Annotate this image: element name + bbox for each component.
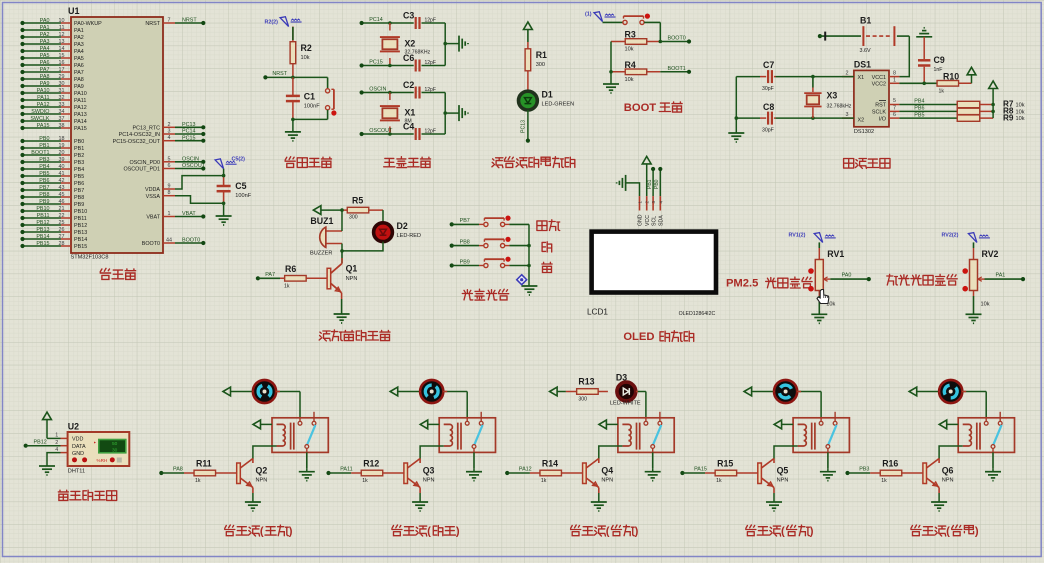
svg-text:30: 30	[112, 448, 118, 454]
wire VDDA loop	[175, 176, 224, 189]
svg-text:D1: D1	[542, 90, 553, 100]
svg-text:6: 6	[893, 112, 896, 118]
U1 pin 17 net PA7	[20, 67, 83, 76]
svg-text:40: 40	[59, 164, 65, 170]
U1 pin 2 PC13_RTC	[133, 122, 206, 132]
R7-R9 right rail + power	[992, 89, 994, 119]
svg-text:BOOT1: BOOT1	[31, 150, 49, 156]
motor/fan	[223, 387, 231, 396]
svg-text:13: 13	[59, 39, 65, 45]
svg-text:PB0: PB0	[39, 136, 49, 142]
coil power terminal	[599, 420, 607, 429]
svg-text:7: 7	[893, 105, 896, 111]
resistor R6 1k / net PA7	[256, 264, 327, 290]
coil power terminal	[253, 420, 261, 429]
svg-text:(: (	[946, 526, 950, 538]
svg-text:11: 11	[59, 25, 65, 31]
svg-text:PB5: PB5	[39, 171, 49, 177]
svg-text:DS1302: DS1302	[854, 129, 874, 135]
svg-text:SWCLK: SWCLK	[30, 116, 50, 122]
U1 pin 1 VBAT	[146, 211, 205, 221]
U1 pin 42 net PB6	[20, 178, 84, 187]
svg-text:PA5: PA5	[74, 56, 84, 62]
power terminal left	[313, 206, 321, 215]
wire to relay	[820, 392, 822, 418]
svg-text:17: 17	[59, 67, 65, 73]
motor/fan	[744, 387, 752, 396]
svg-text:): )	[456, 526, 460, 538]
svg-text:300: 300	[536, 62, 545, 68]
svg-text:PB7: PB7	[74, 188, 84, 194]
svg-text:PB14: PB14	[74, 237, 87, 243]
LCD1 pin 3 SCL	[652, 196, 654, 210]
coil to collector	[618, 445, 623, 447]
svg-text:32.768kHz: 32.768kHz	[827, 104, 852, 110]
svg-text:2: 2	[168, 122, 171, 128]
label 程序运行指示灯	[492, 158, 503, 168]
svg-text:12pF: 12pF	[425, 87, 436, 93]
svg-text:1k: 1k	[881, 478, 887, 484]
svg-text:5: 5	[168, 156, 171, 162]
net PB1 (SCL)	[652, 169, 654, 196]
label 复位电路	[285, 157, 295, 168]
svg-text:Q4: Q4	[601, 466, 613, 476]
transistor Q2 NPN	[252, 459, 254, 464]
svg-text:29: 29	[59, 74, 65, 80]
svg-text:Q1: Q1	[346, 264, 358, 274]
svg-text:300: 300	[349, 215, 358, 221]
svg-text:NPN: NPN	[423, 477, 435, 483]
resistor R14 1k / net PA12	[505, 471, 509, 475]
svg-text:PB1: PB1	[74, 146, 84, 152]
chip DS1 DS1302	[842, 60, 899, 136]
svg-text:OSCOUT_PD1: OSCOUT_PD1	[123, 167, 160, 173]
U1 pin 33 net PA12	[20, 102, 86, 111]
svg-text:7: 7	[168, 18, 171, 24]
svg-text:%RH: %RH	[97, 458, 108, 463]
resistor R10 1k	[899, 71, 971, 94]
svg-text:PB10: PB10	[74, 209, 87, 215]
svg-text:SCL: SCL	[651, 216, 657, 226]
LED D1 LED-GREEN	[519, 91, 538, 110]
potentiometer RV2 10k	[973, 242, 975, 248]
svg-text:PM2.5: PM2.5	[726, 278, 758, 290]
svg-text:R15: R15	[717, 459, 733, 469]
transistor Q4 NPN	[598, 459, 600, 464]
label 晶振电路	[384, 158, 395, 166]
svg-text:U2: U2	[68, 422, 79, 432]
svg-text:(1): (1)	[585, 12, 592, 18]
resistor R5 300	[340, 196, 383, 221]
LCD1 pin 2 VCC	[646, 196, 648, 210]
U1 pin 9 VDDA	[145, 184, 175, 194]
resistor R3 10k	[611, 30, 660, 53]
wiper net PA1	[985, 278, 1024, 280]
svg-text:PA6: PA6	[74, 63, 84, 69]
svg-text:30pF: 30pF	[762, 86, 774, 92]
U1 pin 29 net PA8	[20, 74, 83, 83]
svg-text:): )	[289, 526, 293, 538]
svg-text:PA0: PA0	[842, 273, 852, 279]
svg-text:27: 27	[59, 234, 65, 240]
svg-text:PB12: PB12	[74, 223, 87, 229]
svg-text:PA12: PA12	[519, 467, 532, 473]
svg-text:BOOT0: BOOT0	[668, 36, 686, 42]
label 温湿度模块	[58, 490, 68, 500]
svg-text:15: 15	[59, 53, 65, 59]
key PB7	[450, 216, 529, 227]
U1 pin 44 BOOT0	[142, 238, 206, 248]
label 光照数据调节	[887, 274, 898, 285]
coil power terminal	[420, 420, 428, 429]
svg-text:DS1: DS1	[854, 60, 871, 70]
wire C5 top	[223, 169, 225, 176]
U1 pin 40 net PB4	[20, 164, 84, 173]
svg-text:BOOT: BOOT	[624, 102, 657, 114]
blue marker RV1(2)	[814, 233, 823, 243]
svg-text:(: (	[260, 526, 264, 538]
svg-text:R10: R10	[943, 71, 959, 81]
svg-text:VDD: VDD	[72, 437, 83, 443]
svg-text:10k: 10k	[1016, 103, 1025, 109]
ground keys	[521, 285, 537, 287]
boot button	[603, 14, 661, 25]
svg-text:R13: R13	[578, 377, 594, 387]
svg-text:28: 28	[59, 241, 65, 247]
power terminal DHT11	[43, 412, 52, 420]
U1 pin 32 net PA11	[20, 95, 86, 104]
wire to BOOT0	[659, 22, 661, 41]
label 独立按键	[462, 290, 473, 300]
svg-text:12pF: 12pF	[425, 18, 436, 24]
crystal X3 32.768kHz	[804, 77, 852, 119]
svg-text:R11: R11	[196, 459, 212, 469]
svg-text:C3: C3	[403, 11, 414, 21]
svg-text:NPN: NPN	[942, 477, 954, 483]
svg-text:PB4: PB4	[74, 167, 84, 173]
net OSCOUT wire	[362, 133, 414, 135]
coil power terminal	[939, 420, 947, 429]
LED D2 LED-RED	[382, 210, 384, 223]
svg-text:Q6: Q6	[942, 466, 954, 476]
emitter ground	[598, 488, 600, 494]
svg-text:D2: D2	[397, 221, 408, 231]
svg-text:NPN: NPN	[777, 477, 789, 483]
svg-text:PB4: PB4	[914, 99, 924, 105]
U1 pin 43 net PB7	[20, 185, 84, 194]
svg-text:PA9: PA9	[74, 84, 84, 90]
svg-text:LED-WHITE: LED-WHITE	[610, 401, 641, 407]
label 继电器(补光)	[571, 525, 581, 536]
node NRST + wire	[265, 76, 327, 78]
svg-text:30: 30	[59, 81, 65, 87]
resistor R13 300	[550, 387, 558, 396]
capacitor C5	[217, 174, 252, 205]
svg-text:PA11: PA11	[340, 467, 352, 473]
svg-text:PA13: PA13	[74, 112, 87, 118]
pot ground	[973, 291, 975, 297]
svg-text:OSCIN: OSCIN	[369, 87, 386, 93]
net BOOT1	[660, 71, 689, 73]
transistor Q6 NPN	[938, 459, 940, 464]
capacitor C9 1nF	[918, 37, 945, 84]
power terminal	[524, 22, 533, 30]
svg-text:PA12: PA12	[74, 105, 87, 111]
svg-text:SDA: SDA	[659, 215, 665, 226]
svg-text:X1: X1	[405, 107, 416, 117]
label 声光报警电路	[319, 331, 330, 341]
net PC15 wire	[362, 65, 414, 67]
wire VDD	[47, 437, 61, 439]
U1 pin 26 net PB13	[20, 227, 87, 236]
svg-text:R4: R4	[625, 60, 636, 70]
U1 pin 13 net PA3	[20, 39, 83, 48]
svg-text:44: 44	[166, 238, 172, 244]
svg-text:PB11: PB11	[37, 213, 50, 219]
svg-text:3: 3	[846, 112, 849, 118]
svg-text:3: 3	[651, 201, 656, 204]
wiper net PA0	[830, 278, 869, 280]
wires X1/X2 to caps	[776, 76, 854, 78]
svg-text:PB6: PB6	[914, 106, 924, 112]
keys right rail	[528, 224, 530, 286]
svg-text:U1: U1	[68, 6, 80, 16]
svg-text:2: 2	[645, 201, 650, 204]
svg-text:5: 5	[893, 98, 896, 104]
svg-text:R2: R2	[301, 43, 312, 53]
svg-text:PA4: PA4	[74, 49, 84, 55]
svg-text:3.6V: 3.6V	[860, 48, 871, 54]
svg-text:34: 34	[59, 109, 65, 115]
svg-text:41: 41	[59, 171, 65, 177]
U1 pin 3 PC14-OSC32_IN	[119, 129, 206, 139]
U1 pin 11 net PA1	[20, 25, 83, 34]
transistor Q1 NPN	[341, 251, 343, 263]
net BOOT0	[660, 41, 689, 43]
svg-text:PB3: PB3	[39, 157, 49, 163]
svg-text:10k: 10k	[625, 47, 634, 53]
net PB6 / resistor R8	[899, 110, 956, 112]
svg-text:14: 14	[59, 46, 65, 52]
svg-text:PA2: PA2	[40, 32, 50, 38]
C7/C8 left rail + ground	[736, 76, 760, 78]
svg-text:(: (	[606, 526, 610, 538]
capacitor C8 30pF	[760, 102, 776, 134]
svg-text:PC14: PC14	[369, 17, 383, 23]
net PB5 / resistor R9	[899, 117, 956, 119]
svg-text:12: 12	[59, 32, 65, 38]
OLED power arrow	[642, 156, 651, 164]
LCD1 pin 4 SDA	[659, 196, 661, 210]
coil to collector	[793, 445, 798, 447]
svg-text:1: 1	[893, 77, 896, 83]
svg-text:18: 18	[59, 136, 65, 142]
svg-text:PB3: PB3	[74, 160, 84, 166]
svg-text:PA15: PA15	[37, 123, 50, 129]
labels 设置/加/减	[537, 221, 547, 231]
svg-text:BUZZER: BUZZER	[310, 251, 332, 257]
svg-text:PA4: PA4	[40, 46, 50, 52]
U1 pin 19 net PB1	[20, 143, 84, 152]
svg-text:RV2(2): RV2(2)	[942, 233, 959, 239]
svg-text:PC14: PC14	[182, 129, 196, 135]
svg-text:C9: C9	[934, 55, 945, 65]
svg-text:PB9: PB9	[460, 259, 470, 265]
U1 pin 30 net PA9	[20, 81, 83, 90]
svg-text:VSSA: VSSA	[146, 194, 161, 200]
blue marker C5(2)	[215, 159, 224, 169]
transistor Q5 NPN	[773, 459, 775, 464]
svg-text:SWDIO: SWDIO	[31, 109, 49, 115]
buzzer BUZ1	[310, 216, 342, 257]
svg-text:PB15: PB15	[74, 244, 87, 250]
svg-text:PA7: PA7	[74, 70, 84, 76]
relay	[439, 418, 495, 453]
svg-text:PA1: PA1	[74, 28, 84, 34]
svg-text:20: 20	[59, 150, 65, 156]
svg-text:46: 46	[59, 199, 65, 205]
coil to collector	[272, 445, 277, 447]
relay contact ground	[827, 468, 829, 472]
OLED ground sideways	[617, 175, 626, 191]
svg-text:PA8: PA8	[40, 74, 50, 80]
svg-text:PB13: PB13	[36, 227, 49, 233]
svg-text:Q3: Q3	[423, 466, 435, 476]
svg-text:PC13: PC13	[521, 120, 527, 133]
motor/fan	[390, 387, 398, 396]
svg-text:PC15: PC15	[182, 135, 196, 141]
svg-text:PA14: PA14	[74, 119, 87, 125]
relay contact ground	[992, 468, 994, 472]
svg-text:VCC2: VCC2	[872, 82, 886, 88]
wire to relay	[985, 392, 987, 418]
potentiometer RV1 10k	[818, 242, 820, 248]
U1 pin 8 VSSA	[146, 190, 175, 200]
svg-text:PA7: PA7	[265, 272, 275, 278]
U1 pin 16 net PA6	[20, 60, 83, 69]
svg-text:37: 37	[59, 116, 65, 122]
svg-text:): )	[810, 526, 814, 538]
motor/fan	[909, 387, 917, 396]
svg-text:1: 1	[168, 211, 171, 217]
svg-text:): )	[635, 526, 639, 538]
U1 pin 45 net PB8	[20, 192, 84, 201]
svg-text:R1: R1	[536, 50, 547, 60]
svg-text:PB6: PB6	[39, 178, 49, 184]
svg-text:R3: R3	[625, 30, 636, 40]
blue marker (1)	[594, 12, 603, 22]
label 继电器(喂食)	[746, 525, 756, 536]
label 继电器(加湿)	[392, 525, 402, 536]
svg-text:PA7: PA7	[40, 67, 50, 73]
svg-text:X3: X3	[827, 91, 838, 101]
coil power terminal	[774, 420, 782, 429]
svg-text:BOOT0: BOOT0	[182, 238, 200, 244]
svg-text:(: (	[781, 526, 785, 538]
svg-text:PB12: PB12	[34, 439, 47, 445]
svg-text:OSCOUT: OSCOUT	[182, 163, 206, 169]
svg-text:4: 4	[658, 201, 663, 204]
svg-text:SCLK: SCLK	[872, 110, 886, 116]
reset button	[326, 77, 337, 119]
svg-text:C5(2): C5(2)	[232, 156, 246, 162]
svg-text:10k: 10k	[1016, 116, 1025, 122]
svg-text:I/O: I/O	[879, 116, 886, 122]
svg-text:OLED: OLED	[623, 331, 654, 343]
svg-text:PB8: PB8	[74, 195, 84, 201]
svg-text:PA15: PA15	[694, 467, 707, 473]
svg-text:PB1: PB1	[647, 179, 653, 189]
svg-text:PB8: PB8	[460, 239, 470, 245]
svg-text:BOOT1: BOOT1	[668, 66, 686, 72]
svg-text:BUZ1: BUZ1	[310, 216, 333, 226]
GND wire + ground	[47, 453, 61, 466]
capacitor C4 12pF	[415, 128, 417, 140]
svg-text:PB2: PB2	[74, 153, 84, 159]
label 继电器(补水)	[911, 525, 921, 536]
svg-text:25: 25	[59, 220, 65, 226]
emitter ground	[938, 488, 940, 494]
svg-text:10k: 10k	[625, 77, 634, 83]
svg-text:1k: 1k	[939, 89, 945, 95]
net PB4 / resistor R7	[899, 104, 956, 106]
svg-text:PB7: PB7	[460, 218, 470, 224]
svg-text:LED-GREEN: LED-GREEN	[542, 102, 575, 108]
svg-text:12pF: 12pF	[425, 60, 436, 66]
U1 pin 46 net PB9	[20, 199, 84, 208]
svg-text:1nF: 1nF	[934, 67, 943, 73]
svg-text:PA5: PA5	[40, 53, 50, 59]
left rail + ground	[610, 42, 612, 72]
svg-text:RV1: RV1	[827, 249, 844, 259]
svg-text:PB1: PB1	[39, 143, 49, 149]
svg-text:PB6: PB6	[74, 181, 84, 187]
resistor R4 10k	[611, 60, 660, 83]
svg-text:OLED12864I2C: OLED12864I2C	[679, 311, 716, 317]
svg-text:PB5: PB5	[74, 174, 84, 180]
svg-text:C4: C4	[403, 122, 414, 132]
capacitor C6 12pF	[415, 60, 417, 72]
svg-text:R16: R16	[882, 459, 898, 469]
svg-text:VCC1: VCC1	[872, 75, 886, 81]
svg-text:PB9: PB9	[39, 199, 49, 205]
svg-text:C6: C6	[403, 53, 414, 63]
relay	[272, 418, 328, 453]
svg-text:PA0-WKUP: PA0-WKUP	[74, 21, 102, 27]
svg-text:B1: B1	[860, 16, 871, 26]
svg-text:42: 42	[59, 178, 65, 184]
U1 pin 20 net BOOT1	[20, 150, 84, 159]
svg-text:10: 10	[59, 18, 65, 24]
svg-text:PB11: PB11	[74, 216, 87, 222]
svg-text:Q2: Q2	[256, 466, 268, 476]
svg-text:PB4: PB4	[39, 164, 49, 170]
wire PC13	[527, 110, 529, 141]
capacitor C7 30pF	[760, 60, 776, 92]
wire to relay	[466, 392, 468, 418]
LED D3 LED-WHITE	[617, 382, 636, 401]
svg-text:NPN: NPN	[601, 477, 613, 483]
right rail + ground	[444, 23, 446, 66]
svg-text:8: 8	[893, 70, 896, 76]
svg-text:38: 38	[59, 123, 65, 129]
svg-text:C1: C1	[304, 92, 315, 102]
svg-text:R9: R9	[1003, 113, 1014, 122]
U1 pin 27 net PB14	[20, 234, 87, 243]
svg-text:PA12: PA12	[37, 102, 50, 108]
svg-text:LED-RED: LED-RED	[397, 233, 422, 239]
svg-text:PB0: PB0	[74, 139, 84, 145]
